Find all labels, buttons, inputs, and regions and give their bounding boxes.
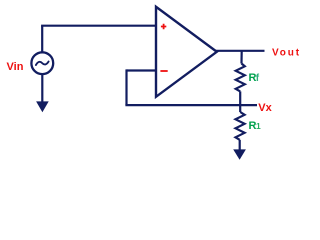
wire from source bottom to ground — [41, 74, 43, 103]
wire riser from source top to top rail — [41, 26, 43, 53]
resistor R1 bottom lead to ground — [239, 140, 241, 151]
wire feedback bottom rail to node Vx — [125, 104, 257, 106]
wire feedback left vertical — [125, 69, 127, 105]
resistor Rf bottom lead — [239, 91, 241, 105]
svg-text:Vin: Vin — [7, 61, 24, 73]
op-amp - input label — [160, 70, 167, 72]
ground arrow at R1 — [233, 149, 246, 159]
wire op-amp output to Vout — [216, 50, 265, 52]
ground arrow at source — [36, 101, 49, 112]
resistor Rf zigzag — [236, 64, 245, 92]
wire top rail to op-amp + input — [41, 25, 156, 27]
wire - input stub — [127, 69, 157, 71]
source V1 (AC source circle) — [31, 52, 53, 74]
resistor R1 top lead from node Vx — [239, 105, 241, 112]
sine symbol inside source — [36, 62, 49, 66]
svg-text:1: 1 — [256, 121, 261, 131]
resistor R1 zigzag — [236, 112, 245, 140]
svg-text:f: f — [256, 73, 260, 84]
wire output junction down to Rf — [240, 51, 242, 64]
svg-text:Vx: Vx — [258, 102, 272, 114]
svg-text:Vout: Vout — [272, 48, 301, 59]
op-amp U1 triangle — [156, 7, 217, 97]
op-amp + input label — [161, 24, 166, 29]
